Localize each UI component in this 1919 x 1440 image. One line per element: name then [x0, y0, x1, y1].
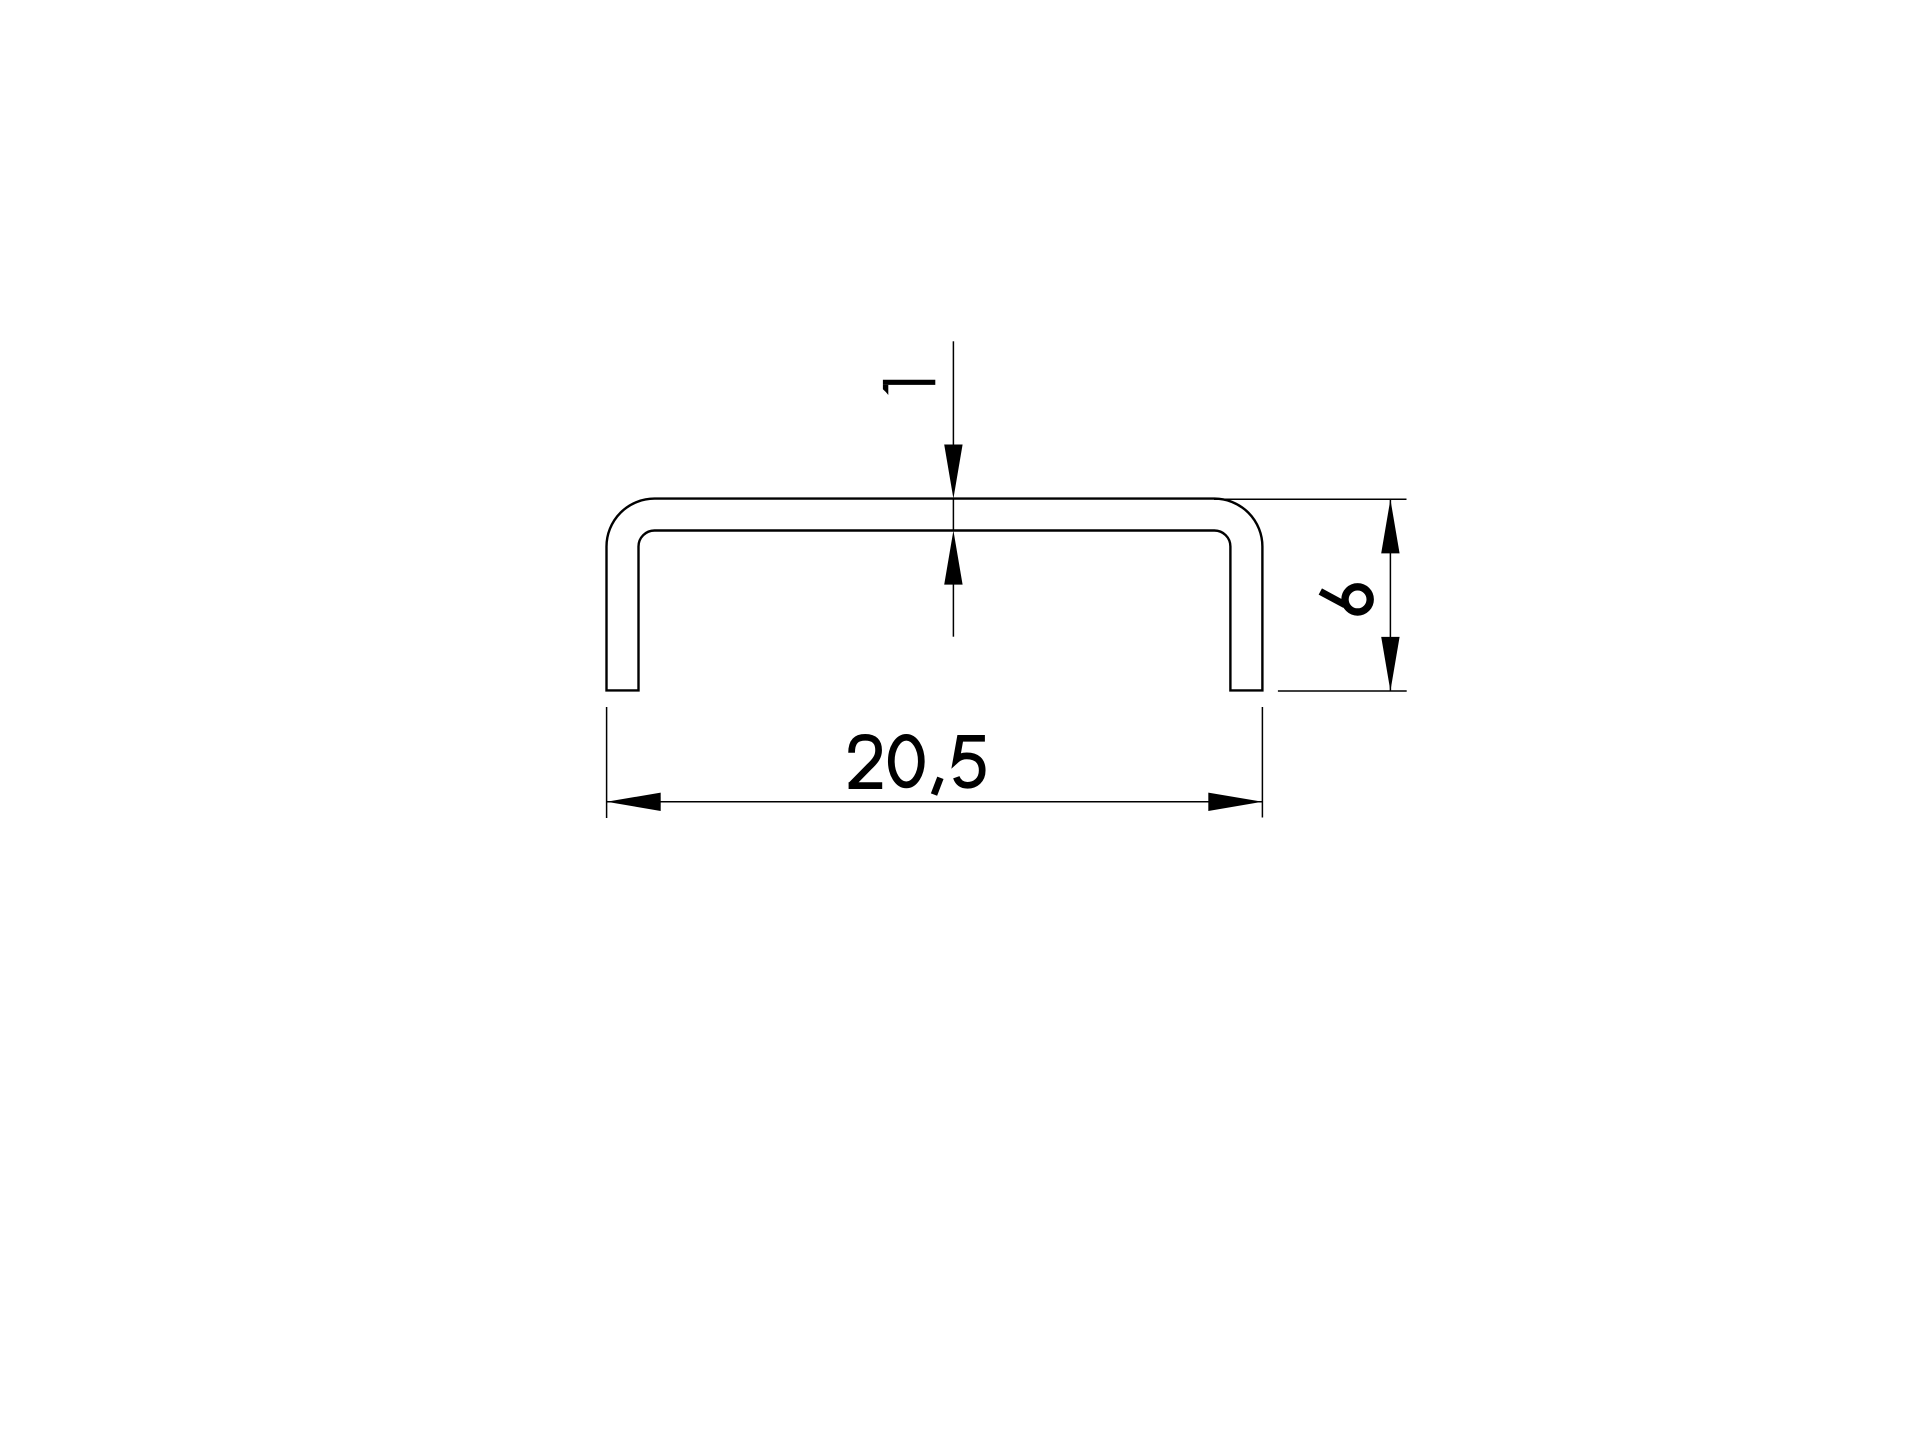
comma [934, 778, 940, 795]
dimension 1: text label "1" (rotated, drawn as path) [883, 380, 935, 385]
dimension 1: upper dimension line segment [952, 341, 954, 446]
dimension 20,5: right extension line [1261, 707, 1263, 818]
dimension 6: top extension line [1214, 498, 1407, 500]
dimension 20,5: left extension line [606, 707, 608, 818]
digit 0 [891, 737, 921, 785]
dimension 1: upper arrowhead pointing down [944, 445, 962, 499]
dimension 6: bottom extension line [1278, 690, 1407, 692]
dimension 1: lower dimension line tail [952, 583, 954, 637]
digit 2 [851, 737, 879, 785]
dimension 20,5: right arrowhead pointing right [1208, 793, 1262, 811]
dimension 6: text label "6" (rotated, drawn as paths) [1320, 587, 1370, 612]
dimension 6: upper arrowhead pointing up [1381, 499, 1399, 553]
dimension 20,5: text label "20,5" (drawn as paths) [849, 737, 985, 794]
dimension 1: lower arrowhead pointing up [944, 531, 962, 585]
dimension 20,5: horizontal dimension line [607, 801, 1263, 803]
dimension 20,5: left arrowhead pointing left [607, 793, 661, 811]
dimension 6: lower arrowhead pointing down [1381, 637, 1399, 691]
digit 5 [956, 738, 985, 785]
dimension 6: vertical dimension line [1389, 499, 1391, 691]
U-channel profile outline [607, 499, 1263, 691]
dimension 1: line crossing the wall [952, 499, 954, 531]
